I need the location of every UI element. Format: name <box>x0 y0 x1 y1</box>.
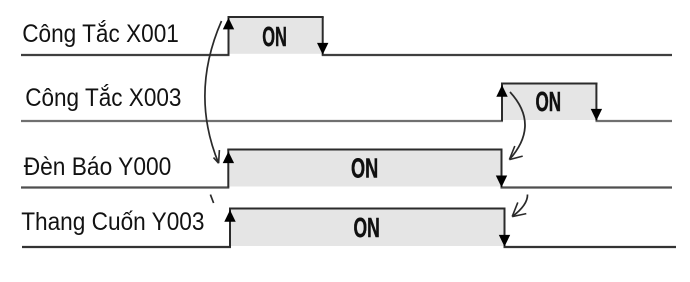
Y000 falling edge <box>501 150 503 188</box>
wire: X003 low-level baseline left segment <box>21 120 503 122</box>
X003 rising-edge up arrowhead <box>496 85 507 97</box>
Y003 rising edge <box>229 209 231 248</box>
Y000 rising-edge up arrowhead <box>223 152 234 164</box>
svg-text:Đèn Báo Y000: Đèn Báo Y000 <box>24 153 172 181</box>
X003 pulse top edge <box>501 83 598 85</box>
wire: X001 low-level baseline right segment <box>322 54 672 56</box>
X001 falling-edge down arrowhead <box>317 43 328 55</box>
X001 rising edge <box>228 17 230 55</box>
Y003 pulse top edge <box>229 208 506 210</box>
curved arrow: X003 rising edge to Y000 falling edge <box>509 92 525 160</box>
X001 rising-edge up arrowhead <box>223 18 234 30</box>
arrowhead barbs of curved arrow X003->Y000 <box>509 146 522 160</box>
Y000 ON pulse fill <box>229 150 501 187</box>
Y003 falling edge <box>504 209 506 247</box>
tick mark above Y003 label <box>210 195 213 203</box>
wire: Y003 low-level baseline left segment <box>22 246 231 248</box>
X001 ON pulse fill <box>230 17 322 54</box>
Y000 rising edge <box>227 150 229 188</box>
wire: Y000 low-level baseline left segment <box>21 186 229 188</box>
Y003 ON pulse fill <box>231 209 505 247</box>
Y003 rising-edge up arrowhead <box>224 210 235 222</box>
Y003 falling-edge down arrowhead <box>499 235 510 247</box>
X003 falling-edge down arrowhead <box>591 109 602 121</box>
svg-text:ON: ON <box>536 86 562 117</box>
wire: X003 low-level baseline right segment <box>596 120 673 122</box>
X003 falling edge <box>595 84 597 121</box>
wire: Y003 low-level baseline right segment <box>504 246 677 248</box>
svg-text:ON: ON <box>354 212 380 243</box>
arrowhead barbs of curved arrow X001->Y000 <box>214 150 220 163</box>
svg-text:ON: ON <box>262 21 287 52</box>
curved arrow: Y000 falling to Y003 falling edge <box>512 195 527 217</box>
curved arrow: X001 rising edge to Y000 rising edge <box>205 21 222 163</box>
X001 pulse top edge <box>228 16 324 18</box>
svg-text:Thang Cuốn Y003: Thang Cuốn Y003 <box>21 208 204 236</box>
svg-text:Công Tắc X001: Công Tắc X001 <box>22 19 179 48</box>
X003 ON pulse fill <box>503 84 596 121</box>
arrowhead barbs of curved arrow at Y003 falling edge <box>512 202 526 216</box>
Y000 pulse top edge <box>227 149 502 151</box>
svg-text:Công Tắc X003: Công Tắc X003 <box>25 83 181 112</box>
wire: Y000 low-level baseline right segment <box>501 186 673 188</box>
X003 rising edge <box>501 84 503 122</box>
X001 falling edge <box>322 17 324 55</box>
wire: X001 low-level baseline left segment <box>21 54 230 56</box>
Y000 falling-edge down arrowhead <box>496 176 507 188</box>
svg-text:ON: ON <box>351 153 378 184</box>
